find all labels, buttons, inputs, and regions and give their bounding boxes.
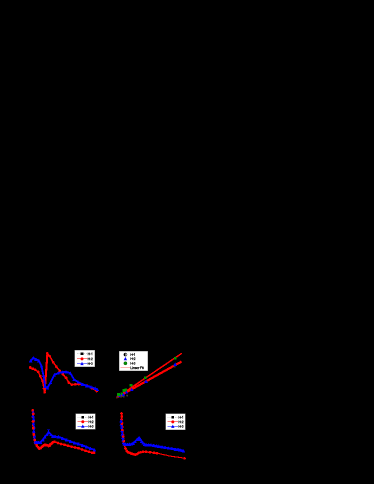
chart 2 legend row H-2 blue triangle bbox=[124, 357, 136, 360]
chart 4 red spike top error cap bbox=[120, 413, 122, 415]
chart 3 legend row H-1 bbox=[78, 416, 93, 419]
chart 4 red H-2 spike bbox=[120, 412, 127, 450]
chart 4 blue H-3 spike bbox=[119, 419, 126, 445]
chart 4 red markers overlapping spike bbox=[121, 423, 125, 443]
chart 2 legend row Linear Fit red line bbox=[121, 367, 144, 369]
chart 4 red H-2 thin tail bbox=[157, 453, 186, 459]
chart 2 legend row H-1 half-filled circle bbox=[124, 353, 135, 356]
chart 2 green H-3 square scatter markers bbox=[117, 357, 177, 396]
chart 1 legend box bbox=[75, 350, 95, 366]
chart 3 blue H-3 spike bbox=[31, 410, 37, 444]
chart 3 blue tail error bars bbox=[65, 439, 79, 446]
chart 3 legend row H-2 bbox=[78, 420, 94, 423]
chart 3 red spike top error cap bbox=[32, 410, 34, 412]
chart 2 lower red linear fit line bbox=[116, 362, 181, 398]
chart 3 red markers overlapping spike bbox=[32, 413, 36, 442]
chart 1 red error bar caps bbox=[43, 353, 48, 392]
chart 2 dark H-1 scatter markers bbox=[116, 366, 176, 399]
chart 3 blue peak error bar bbox=[47, 430, 50, 435]
chart 1 red spike thickening bbox=[45, 354, 48, 392]
chart 4 legend row H-3 bbox=[168, 425, 184, 428]
chart 2 blue H-2 triangle scatter markers bbox=[118, 362, 177, 397]
chart 2 upper red linear fit line bbox=[116, 353, 182, 398]
chart 4 legend row H-1 bbox=[168, 416, 183, 419]
chart 4 blue bump extra markers bbox=[136, 437, 142, 441]
chart 1 blue H-3 curve bbox=[29, 356, 99, 391]
chart 4 legend row H-2 bbox=[168, 420, 184, 423]
chart 4 red H-2 curve bbox=[124, 447, 158, 456]
chart 3 legend row H-3 bbox=[78, 425, 94, 428]
chart 1 red H-2 curve bbox=[29, 352, 98, 394]
chart 3 legend box bbox=[76, 414, 96, 430]
chart 1 legend row H-1 bbox=[77, 353, 92, 356]
chart 3 blue H-3 curve bbox=[34, 430, 96, 451]
chart 4 blue H-3 curve bbox=[122, 436, 185, 453]
chart 2 legend row H-3 green circle bbox=[124, 362, 135, 365]
chart 4 legend box bbox=[166, 414, 185, 430]
chart 3 red H-2 spike bbox=[31, 409, 37, 445]
chart 2 legend box bbox=[119, 351, 148, 371]
chart 1 legend row H-2 bbox=[77, 357, 93, 360]
chart 2 extra cluster markers bbox=[120, 392, 125, 397]
chart 1 legend row H-3 bbox=[77, 362, 93, 365]
chart 3 red H-2 curve bbox=[34, 440, 95, 454]
